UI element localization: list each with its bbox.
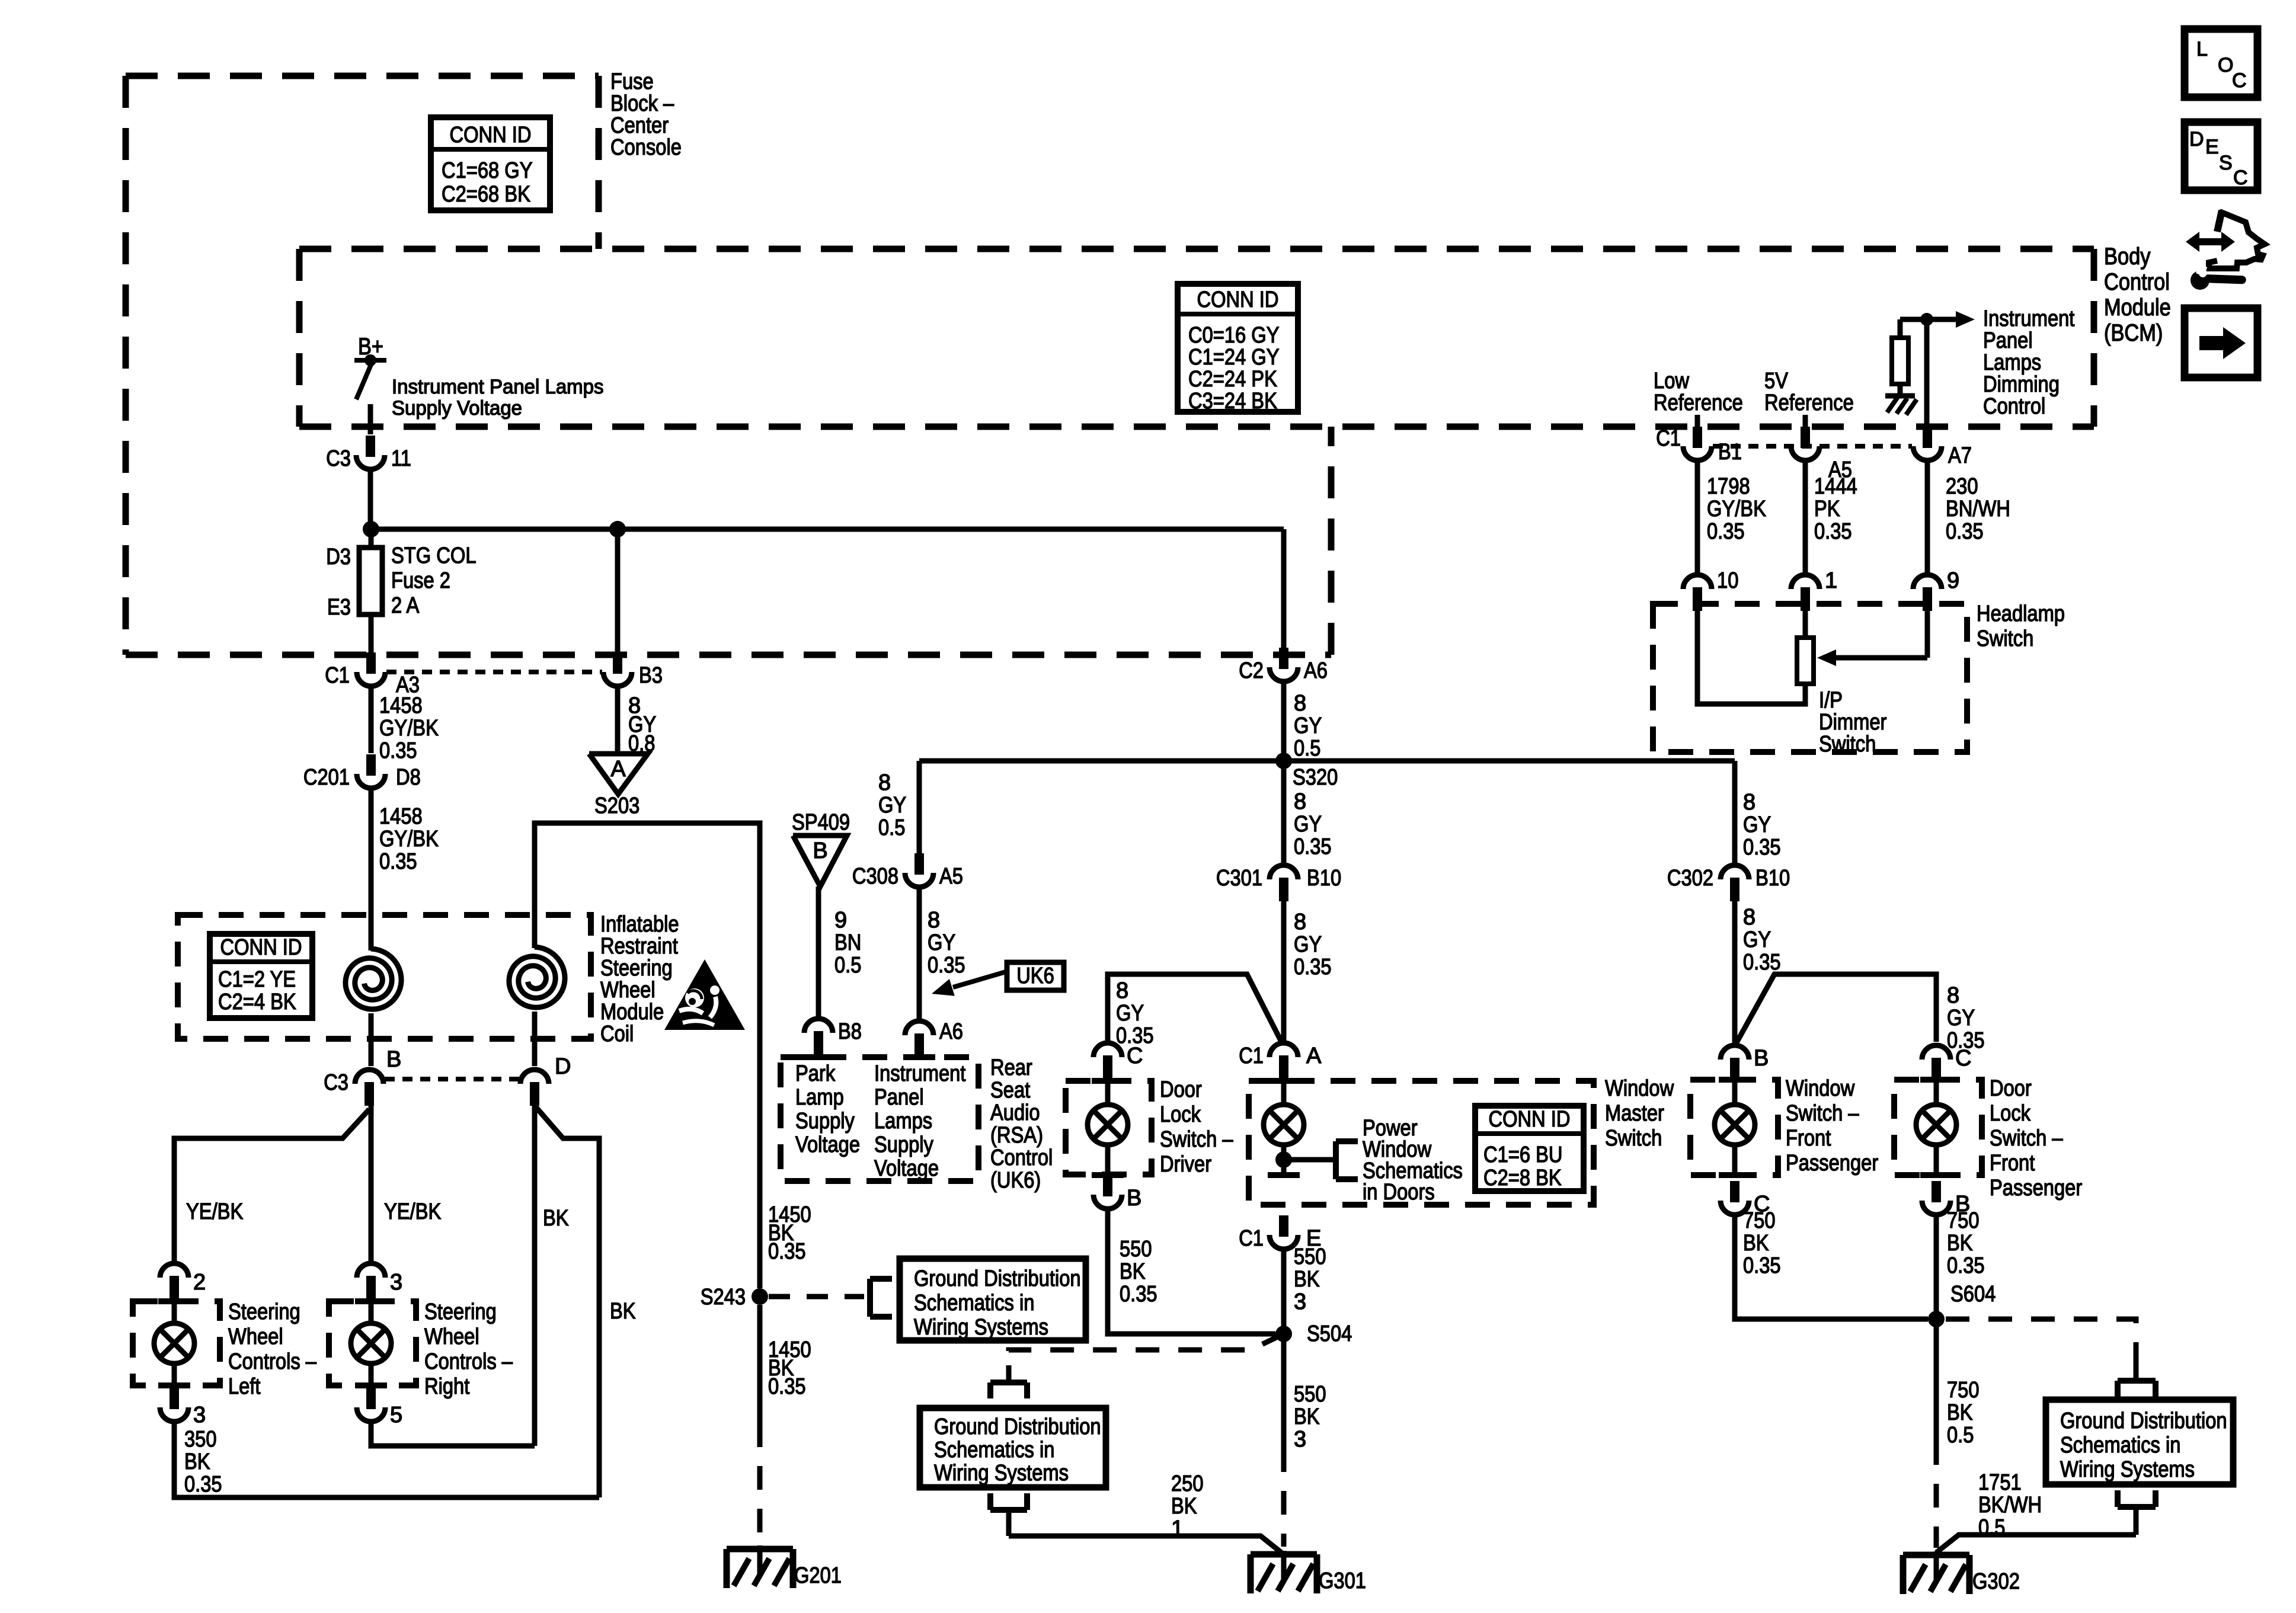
svg-text:GY: GY [1116,1001,1144,1026]
S320 horizontal bus [919,759,1735,764]
bracket above ground distribution box C [2118,1363,2156,1397]
svg-text:Control: Control [990,1145,1053,1170]
svg-text:Switch: Switch [1977,626,2033,651]
wire bus corner down to C2-A6 [1281,529,1287,648]
svg-text:Dimmer: Dimmer [1819,710,1887,735]
svg-text:GY: GY [1743,812,1771,837]
svg-text:0.35: 0.35 [1814,519,1852,544]
dimmer wiper arrow [1817,608,1927,666]
lamp (steering wheel controls left) [154,1297,194,1385]
wire C308 to A6 [917,889,922,1019]
svg-text:Center: Center [610,113,669,138]
svg-text:C301: C301 [1216,866,1262,891]
wire S243 to G201 [757,1305,763,1544]
svg-text:Master: Master [1605,1101,1664,1126]
branch wire to door lock driver C [1108,974,1281,1042]
svg-text:G301: G301 [1319,1569,1366,1593]
svg-text:Lamp: Lamp [795,1085,844,1110]
dotted connector link C1/A3 to B3 [386,670,602,674]
svg-text:2 A: 2 A [391,593,420,618]
svg-text:A5: A5 [939,864,963,889]
ground distribution callout box B [920,1408,1106,1487]
part locator icon (double arrow, fender outline, wrench) [2186,210,2265,290]
svg-text:Window: Window [1605,1076,1674,1101]
svg-text:C201: C201 [303,765,350,790]
fuse block label [610,69,682,160]
wire C301 to C1-A [1281,898,1287,1042]
svg-text:Supply: Supply [795,1109,855,1134]
svg-text:S203: S203 [594,793,639,818]
wire B driver to S504 [1108,1211,1275,1334]
lamp (door lock FP) [1916,1078,1956,1175]
svg-text:0.5: 0.5 [1294,736,1320,761]
svg-text:8: 8 [1743,905,1755,930]
svg-text:Lamps: Lamps [1983,350,2041,375]
svg-text:3: 3 [1294,1289,1306,1314]
connector B8 [804,1019,862,1055]
BCM dimmer resistor [1892,319,1908,395]
svg-text:GY: GY [1947,1006,1975,1030]
svg-text:C2: C2 [1239,658,1264,683]
svg-text:CONN ID: CONN ID [450,123,532,148]
svg-text:BK: BK [1294,1267,1320,1292]
svg-text:B: B [386,1047,401,1072]
svg-text:8: 8 [928,908,940,933]
svg-text:0.35: 0.35 [1294,834,1332,859]
svg-text:8: 8 [1947,983,1959,1008]
svg-text:Control: Control [2104,269,2170,295]
UK6 RPO callout box [1007,962,1064,990]
dotted connector link B to D [385,1077,519,1081]
connector pin 2 (steering wheel controls left) [160,1263,206,1300]
svg-text:1751: 1751 [1978,1470,2022,1495]
svg-text:BK: BK [1947,1400,1973,1425]
svg-text:GY: GY [878,793,906,818]
connector C1 pin A3 [325,652,420,697]
svg-text:D3: D3 [326,545,351,569]
svg-text:3: 3 [390,1270,402,1295]
BCM internal ground [1885,396,1917,415]
svg-text:0.5: 0.5 [1978,1515,2005,1540]
svg-text:C1=24 GY: C1=24 GY [1188,345,1280,370]
svg-text:Voltage: Voltage [795,1132,860,1157]
lamp (window switch FP) [1715,1078,1755,1175]
splice triangle SP409 (B) [792,810,850,886]
bracket to ground distribution box A [870,1279,892,1317]
svg-text:Module: Module [2104,295,2171,321]
svg-text:Lock: Lock [1160,1102,1201,1127]
svg-text:0.5: 0.5 [878,815,905,840]
ground G302 [1903,1551,2020,1594]
svg-text:Front: Front [1786,1126,1831,1151]
svg-text:Schematics in: Schematics in [2060,1433,2180,1458]
ground distribution callout box A [900,1259,1086,1340]
svg-text:0.35: 0.35 [184,1472,222,1497]
BCM dimming control junction [1900,313,1933,326]
svg-text:C1: C1 [325,663,350,688]
svg-text:Wheel: Wheel [600,978,655,1003]
svg-text:C2=24 PK: C2=24 PK [1188,367,1277,392]
svg-text:Wheel: Wheel [228,1324,283,1349]
connector C201 pin D8 [303,754,421,790]
svg-text:GY/BK: GY/BK [1707,497,1766,521]
connector pin 10 [1683,568,1738,611]
svg-text:O: O [2218,54,2233,76]
svg-text:10: 10 [1717,568,1738,593]
branch to steering wheel left [174,1109,369,1261]
svg-text:B: B [813,838,827,863]
coil dashed box [178,915,591,1039]
wire C3-11 to junction [368,472,373,529]
wire right coil up and over to S243 drop [535,823,760,1288]
svg-text:Reference: Reference [1654,391,1743,415]
svg-text:11: 11 [391,446,411,471]
wire dashed into G301 [1281,1448,1287,1547]
svg-text:Door: Door [1990,1076,2032,1101]
svg-text:Switch –: Switch – [1786,1101,1859,1126]
svg-text:B3: B3 [639,663,663,688]
svg-text:Passenger: Passenger [1990,1176,2082,1201]
connector B (window switch FP) [1721,1045,1769,1081]
svg-text:(RSA): (RSA) [990,1123,1043,1148]
svg-text:8: 8 [1294,910,1306,934]
svg-text:CONN ID: CONN ID [1489,1107,1571,1132]
svg-text:1458: 1458 [379,804,423,829]
BCM label [2104,244,2171,346]
svg-text:D: D [555,1054,571,1079]
svg-text:Block –: Block – [610,91,674,116]
connector pin A7 (BCM) [1913,427,1972,468]
svg-text:C1=6 BU: C1=6 BU [1483,1142,1563,1167]
svg-text:(UK6): (UK6) [990,1168,1041,1193]
wire B3 branch down [615,529,621,652]
svg-text:C302: C302 [1667,866,1713,891]
svg-text:1458: 1458 [379,693,423,718]
svg-text:B: B [1127,1186,1141,1211]
svg-text:L: L [2196,38,2208,60]
wire window FP to S604 [1735,1217,1928,1319]
svg-text:C1: C1 [1656,426,1681,451]
svg-text:Wiring Systems: Wiring Systems [2060,1457,2195,1482]
svg-text:B8: B8 [838,1019,862,1044]
branch D to BK drop [536,1107,599,1497]
svg-text:Door: Door [1160,1077,1202,1102]
svg-text:A6: A6 [939,1019,963,1044]
svg-text:D8: D8 [396,765,421,790]
svg-text:Supply: Supply [874,1132,933,1157]
svg-text:3: 3 [193,1403,206,1428]
junction node at fuse top [363,521,379,537]
svg-text:C3=24 BK: C3=24 BK [1188,389,1277,414]
svg-text:Switch –: Switch – [1160,1127,1233,1152]
svg-text:C: C [2232,69,2247,92]
splice S243 [701,1285,768,1310]
wire A7 to pin 9 [1925,463,1930,572]
BCM dimming control arrow [1927,311,1975,328]
svg-text:Wiring Systems: Wiring Systems [914,1315,1048,1340]
wire S504 to G301 dashed [1281,1334,1287,1448]
svg-text:G302: G302 [1972,1569,2020,1594]
connector pin 5 (steering wheel controls right) [357,1388,402,1428]
svg-text:Panel: Panel [874,1085,924,1110]
connector pin A5 (BCM) [1791,427,1852,482]
svg-text:E: E [2205,136,2219,158]
splice S604 [1928,1282,1996,1327]
wire fuse to C1-A3 [369,615,374,652]
LOC icon box [2185,29,2257,97]
window switch FP dashed box [1690,1080,1778,1175]
svg-text:A: A [1306,1044,1322,1068]
wire B1 to pin 10 [1695,463,1700,572]
svg-text:Wheel: Wheel [424,1324,479,1349]
dashed lead S243 to ground distribution callout [769,1294,864,1300]
svg-text:Steering: Steering [228,1300,300,1324]
svg-text:Lock: Lock [1990,1101,2031,1126]
svg-text:Left: Left [228,1374,261,1399]
svg-text:BK: BK [1947,1231,1973,1256]
label: Instrument Panel Lamps Supply Voltage [392,376,604,420]
svg-text:Inflatable: Inflatable [600,912,679,937]
ground G201 [727,1545,842,1588]
svg-text:S604: S604 [1950,1282,1996,1307]
wire SP409 to B8 [816,886,821,1016]
svg-text:Instrument: Instrument [874,1061,966,1086]
connector pin 9 [1913,568,1959,611]
svg-text:Ground Distribution: Ground Distribution [2060,1409,2227,1433]
svg-text:STG COL: STG COL [391,543,477,568]
dashed ground route S504 to box B [1009,1334,1284,1368]
svg-text:D: D [2189,128,2204,151]
svg-text:Audio: Audio [990,1100,1040,1125]
svg-text:1: 1 [1171,1516,1184,1541]
svg-text:0.35: 0.35 [768,1374,806,1399]
svg-text:S320: S320 [1293,765,1338,790]
svg-text:BK: BK [184,1449,210,1474]
svg-text:8: 8 [1743,790,1755,815]
svg-text:0.35: 0.35 [1294,955,1332,980]
wire C1-A3 to C201 [369,689,374,753]
door lock FP dashed box [1894,1080,1982,1175]
svg-text:Low: Low [1654,369,1689,393]
svg-text:G201: G201 [794,1563,842,1588]
wire horizontal bus to C2-A6 [371,527,1284,532]
svg-text:(BCM): (BCM) [2104,320,2163,346]
svg-text:A: A [610,757,626,782]
dotted connector link B1-A5-A7 [1713,444,1912,449]
svg-text:in Doors: in Doors [1363,1180,1435,1205]
svg-text:GY/BK: GY/BK [379,827,439,852]
connector C301 pin B10 [1216,865,1341,901]
svg-text:1: 1 [1825,568,1837,593]
svg-text:A6: A6 [1304,658,1328,683]
svg-text:0.35: 0.35 [1946,519,1984,544]
B+ battery feed switch [354,334,386,434]
CONN ID table (BCM) [1178,284,1298,414]
svg-text:Instrument: Instrument [1983,306,2075,331]
branch wire to door lock FP C [1735,974,1936,1046]
lamp (steering wheel controls right) [351,1297,391,1385]
svg-text:BK: BK [1743,1231,1769,1256]
svg-text:0.35: 0.35 [1743,950,1781,975]
svg-text:C1: C1 [1239,1044,1264,1068]
svg-text:Headlamp: Headlamp [1977,601,2065,626]
junction node B3 branch [609,521,626,537]
svg-text:S504: S504 [1307,1321,1352,1346]
connector C3 pin 11 [326,436,411,471]
svg-text:YE/BK: YE/BK [186,1199,243,1224]
svg-text:0.35: 0.35 [379,849,417,874]
connector C (door lock FP) [1922,1045,1971,1081]
connector pin 3 (steering wheel controls left) [160,1388,206,1428]
splice S504 [1275,1321,1352,1346]
svg-text:C1=68 GY: C1=68 GY [442,158,533,183]
svg-text:C2=4 BK: C2=4 BK [218,990,296,1014]
wire S604 to G302 [1934,1319,1939,1548]
svg-text:750: 750 [1743,1208,1776,1233]
svg-text:B10: B10 [1307,866,1341,891]
svg-text:GY: GY [1294,932,1322,957]
svg-text:BK: BK [543,1206,569,1231]
svg-text:9: 9 [834,908,847,933]
wire junction to fuse [369,529,374,548]
svg-text:B1: B1 [1718,440,1742,465]
park lamp / IP lamps supply dashed box [781,1057,978,1181]
svg-text:2: 2 [193,1270,206,1295]
fuse STG COL 2A [326,543,476,620]
wire box C to G302 [1936,1535,2136,1553]
steering wheel controls right dashed box [329,1301,416,1385]
svg-text:UK6: UK6 [1016,964,1054,988]
svg-text:250: 250 [1171,1471,1204,1496]
svg-text:BK: BK [1171,1494,1197,1519]
svg-text:GY: GY [928,930,955,955]
svg-text:C2=68 BK: C2=68 BK [442,182,530,207]
connector C1 pin E [1239,1215,1321,1251]
connector C2 pin A6 [1239,648,1328,683]
svg-text:C: C [1955,1046,1971,1071]
svg-text:0.35: 0.35 [379,738,417,763]
wire C3-B to steering wheel right [369,1103,374,1261]
svg-text:Schematics in: Schematics in [934,1438,1054,1462]
bracket below ground distribution box B [990,1493,1027,1536]
svg-text:C3: C3 [324,1070,348,1095]
svg-text:I/P: I/P [1819,688,1843,713]
wire C2-A6 to S320 [1281,684,1287,761]
connector C308 pin A5 [852,853,963,889]
svg-text:S: S [2219,152,2233,174]
connector B (door lock FP) [1922,1181,1970,1217]
svg-text:Steering: Steering [600,956,673,981]
svg-text:BK: BK [1294,1404,1320,1429]
svg-text:0.35: 0.35 [1743,835,1781,860]
fuse block - center console dashed outline [126,76,1331,655]
svg-text:Panel: Panel [1983,328,2033,353]
headlamp switch dashed box [1653,604,1967,752]
svg-text:0.35: 0.35 [1707,519,1745,544]
svg-text:BN/WH: BN/WH [1946,497,2010,521]
svg-text:Switch –: Switch – [1990,1126,2063,1151]
svg-text:C1=2 YE: C1=2 YE [218,967,296,992]
connector C302 pin B10 [1667,865,1790,901]
CONN ID table (fuse block) [431,117,550,210]
svg-text:BK: BK [610,1299,636,1324]
svg-text:CONN ID: CONN ID [1197,287,1279,312]
wire A5 to pin 1 [1803,463,1808,572]
body control module (BCM) dashed outline [299,249,2094,427]
lamp (door lock driver) [1088,1076,1128,1175]
junction node to power window callout [1275,1151,1292,1168]
svg-text:Lamps: Lamps [874,1109,932,1134]
connector A6 [905,1019,963,1057]
svg-text:0.35: 0.35 [768,1239,806,1264]
svg-text:Front: Front [1990,1151,2035,1176]
svg-text:350: 350 [184,1427,217,1452]
svg-text:Controls –: Controls – [228,1349,317,1374]
svg-text:Console: Console [610,135,682,160]
wire box B to G301 [1009,1536,1281,1553]
svg-text:8: 8 [878,770,891,795]
wire C201-D8 to coil [369,791,374,950]
svg-text:B: B [1754,1046,1769,1071]
svg-text:S243: S243 [701,1285,746,1310]
svg-text:Module: Module [600,1000,664,1025]
connector pin 3 (steering wheel controls right) [357,1263,402,1300]
svg-text:SP409: SP409 [792,810,850,835]
svg-text:Driver: Driver [1160,1152,1211,1177]
svg-text:BK: BK [1120,1259,1146,1284]
svg-text:BK/WH: BK/WH [1978,1493,2042,1518]
svg-text:Fuse: Fuse [610,69,654,94]
ground distribution callout box C [2046,1400,2233,1484]
svg-text:GY: GY [1294,812,1322,837]
svg-text:YE/BK: YE/BK [384,1199,441,1224]
svg-text:BN: BN [834,930,861,955]
svg-text:Switch: Switch [1605,1126,1662,1151]
bracket above ground distribution box B [990,1365,1027,1398]
ground G301 [1251,1551,1366,1593]
svg-text:GY: GY [1294,713,1322,738]
svg-text:1444: 1444 [1814,474,1857,499]
DESC icon box [2185,122,2257,190]
door lock switch driver dashed box [1066,1081,1152,1174]
svg-text:A7: A7 [1948,443,1972,468]
connector pin 1 [1791,568,1837,611]
wire left coil to C3-B [369,1013,374,1066]
svg-text:Controls –: Controls – [424,1349,513,1374]
svg-text:C2=8 BK: C2=8 BK [1483,1166,1562,1190]
svg-text:Wiring Systems: Wiring Systems [934,1461,1069,1486]
svg-text:0.35: 0.35 [1743,1253,1781,1278]
svg-text:8: 8 [1116,978,1128,1003]
svg-text:Instrument Panel Lamps: Instrument Panel Lamps [392,376,604,398]
splice S320 [1275,753,1338,790]
steering wheel controls left dashed box [133,1301,220,1385]
svg-text:230: 230 [1946,474,1978,499]
svg-text:750: 750 [1947,1208,1980,1233]
svg-text:Coil: Coil [600,1022,634,1046]
wire D down to loop [532,1103,538,1446]
bracket below ground distribution box C [2118,1490,2156,1535]
connector C1 pin B1 [1656,426,1742,465]
svg-text:CONN ID: CONN ID [220,935,302,960]
svg-text:0.35: 0.35 [1120,1282,1157,1307]
svg-text:Ground Distribution: Ground Distribution [934,1414,1101,1439]
connector C3 pin B [324,1047,401,1106]
svg-text:C1: C1 [1239,1226,1264,1251]
airbag warning triangle [664,959,745,1030]
svg-text:Reference: Reference [1764,391,1854,415]
svg-text:C0=16 GY: C0=16 GY [1188,323,1280,348]
